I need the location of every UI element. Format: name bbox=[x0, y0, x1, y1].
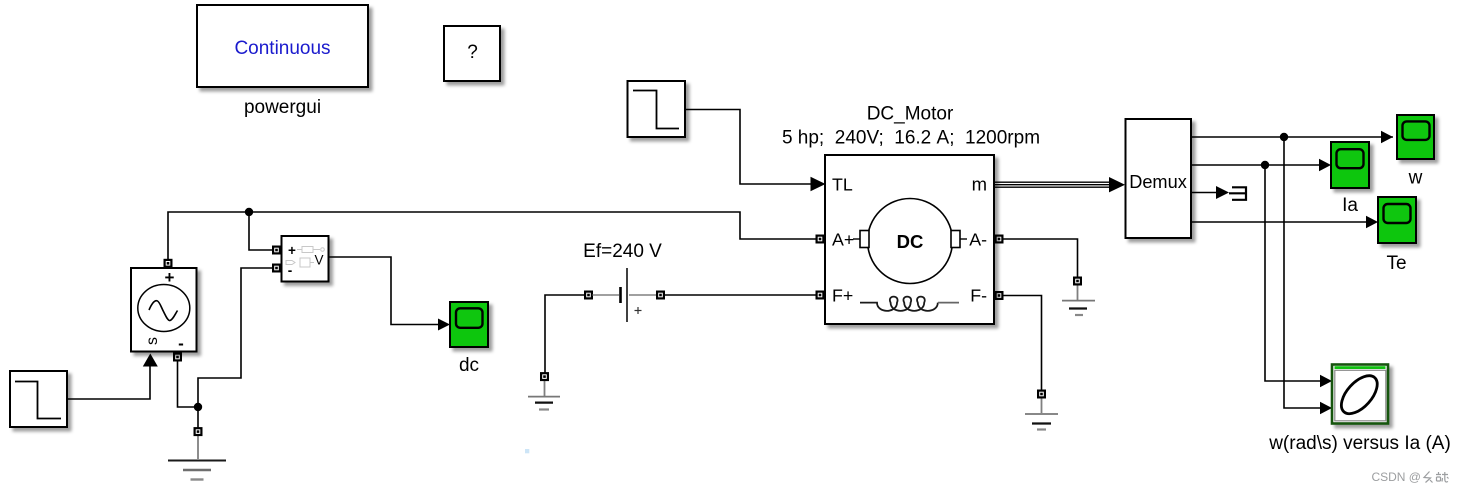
svg-text:F-: F- bbox=[970, 286, 987, 306]
svg-text:-: - bbox=[288, 263, 293, 278]
svg-text:dc: dc bbox=[459, 355, 479, 376]
svg-text:w(rad\s) versus Ia (A): w(rad\s) versus Ia (A) bbox=[1268, 433, 1451, 454]
svg-text:Ia: Ia bbox=[1342, 195, 1358, 216]
svg-text:w: w bbox=[1408, 168, 1423, 189]
svg-text:DC_Motor: DC_Motor bbox=[867, 104, 954, 125]
svg-text:m: m bbox=[972, 174, 987, 195]
svg-text:CSDN @: CSDN @ bbox=[1371, 470, 1421, 484]
svg-text:A-: A- bbox=[969, 230, 987, 250]
svg-text:powergui: powergui bbox=[244, 97, 321, 118]
svg-text:?: ? bbox=[467, 42, 478, 63]
svg-text:TL: TL bbox=[832, 175, 853, 195]
svg-text:-: - bbox=[178, 334, 184, 353]
svg-text:DC: DC bbox=[897, 231, 924, 252]
svg-text:s: s bbox=[144, 337, 161, 345]
svg-text:+: + bbox=[288, 243, 296, 258]
svg-text:5 hp; 240V; 16.2 A; 1200rpm: 5 hp; 240V; 16.2 A; 1200rpm bbox=[782, 128, 1040, 149]
svg-text:Demux: Demux bbox=[1129, 172, 1187, 192]
svg-text:Continuous: Continuous bbox=[234, 38, 330, 59]
svg-text:+: + bbox=[165, 268, 175, 287]
svg-text:V: V bbox=[314, 253, 323, 268]
svg-text:Ef=240 V: Ef=240 V bbox=[583, 241, 662, 262]
svg-text:F+: F+ bbox=[832, 286, 853, 306]
svg-text:Te: Te bbox=[1386, 253, 1406, 274]
svg-text:A+: A+ bbox=[832, 230, 854, 250]
